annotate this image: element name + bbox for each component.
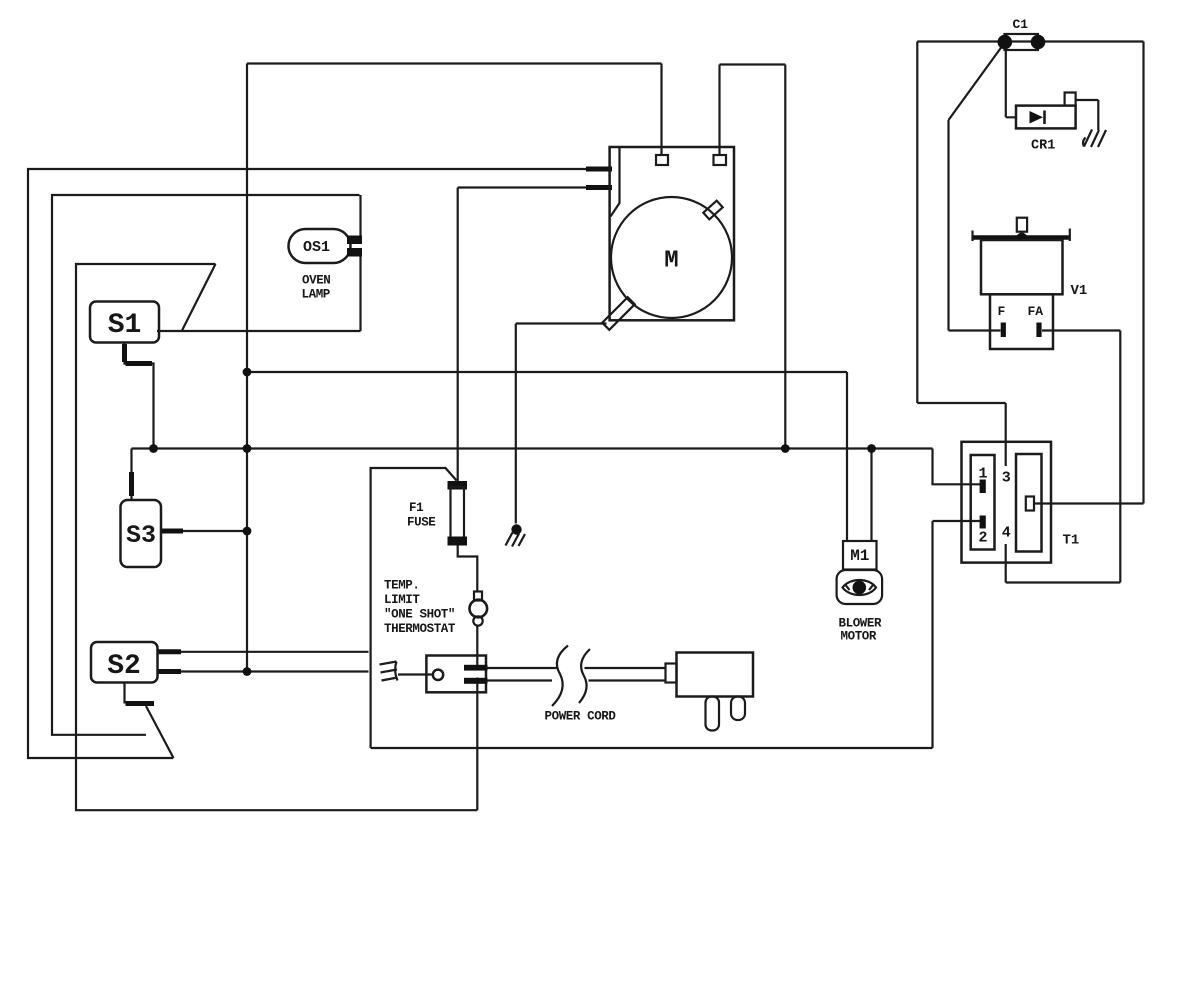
svg-text:M1: M1 [850, 547, 869, 565]
wire power cord conductor 1 [488, 667, 666, 669]
junction BU mid / central vertical [243, 368, 252, 377]
wire S3 right (BU) to central vertical [161, 530, 247, 532]
wire secondary terminal to right vertical [1034, 502, 1144, 504]
svg-text:POWER CORD: POWER CORD [545, 710, 617, 724]
wire PK net: top run to motor terminal 2 and down right side [720, 65, 786, 449]
ground symbol for CR1 [1083, 130, 1106, 148]
wire RD# bottom run [371, 747, 933, 749]
wire claw to receptacle circle [398, 673, 432, 675]
wire lamp branch vertical upper and lower [359, 195, 361, 331]
svg-text:OVEN: OVEN [302, 274, 330, 288]
svg-text:BLOWER: BLOWER [839, 617, 883, 631]
svg-text:"ONE SHOT": "ONE SHOT" [384, 608, 455, 622]
lamp OS1 oven lamp [289, 229, 363, 263]
svg-text:MOTOR: MOTOR [841, 630, 877, 644]
wire S2 switch lever [146, 706, 174, 758]
svg-text:T1: T1 [1063, 533, 1080, 549]
wire left vertical of HV loop (C1 left to pin3) [916, 42, 918, 404]
svg-text:OS1: OS1 [303, 239, 330, 256]
wire S1 switch lever [182, 264, 216, 331]
svg-text:S1: S1 [108, 310, 142, 341]
junction BU# / central vertical [243, 667, 252, 676]
svg-text:S3: S3 [126, 521, 156, 550]
transformer T1 [962, 442, 1052, 563]
junction PK# / central vertical [243, 444, 252, 453]
svg-text:M: M [664, 248, 678, 275]
junction PK motor lead / PK# [781, 444, 790, 453]
switch S3 (interlock monitor) [121, 500, 162, 567]
svg-text:V1: V1 [1071, 283, 1088, 299]
junction S3 BU wire / central vertical [243, 527, 252, 536]
thermostat temp limit one-shot [470, 592, 488, 626]
wire YW# net: top run, outer-left vertical, bottom run to S2 lever [28, 169, 611, 758]
wire T1 pin3 vertical [1005, 403, 1007, 466]
switch S2 (secondary interlock) [91, 642, 158, 683]
svg-text:3: 3 [1002, 470, 1011, 487]
svg-text:LAMP: LAMP [302, 288, 330, 302]
wire GR net from motor shaft stub to ground pin [516, 324, 607, 524]
switch S1 (primary interlock) [90, 302, 159, 343]
wire S1 bottom to PK# [125, 342, 154, 449]
wire T1 pin4 vertical [1005, 544, 1007, 583]
wire power cord conductor 2 [488, 679, 666, 681]
wire BK# thick end at motor tab [586, 185, 612, 190]
diode CR1 [1016, 93, 1076, 129]
wire WT# net: top run to S1 lever, inner-left vertical, long bottom run [76, 264, 477, 810]
svg-text:F1: F1 [409, 501, 423, 515]
capacitor C1 [998, 34, 1046, 50]
wire receptacle lower terminal down through RD# to WT# corner [476, 678, 478, 811]
wire fuse bottom to thermostat [458, 545, 478, 592]
power cord receptacle block [426, 656, 487, 693]
wire GY diagonal from C1 left [949, 47, 1002, 120]
wire T1 pin2 feed from RD# vertical [933, 521, 981, 748]
svg-text:FA: FA [1028, 304, 1044, 319]
svg-text:CR1: CR1 [1031, 139, 1055, 154]
junction PK#/S1 [149, 444, 158, 453]
wire enclosure left: fuse-top corner down to RD# run [371, 468, 457, 748]
wire S1 bottom thick stub [125, 344, 153, 364]
blower motor M1 [837, 541, 883, 604]
wire right vertical (C1 right down to secondary) [1142, 42, 1144, 504]
svg-text:F: F [998, 304, 1006, 319]
wire YW# thick end at motor tab [586, 167, 612, 172]
wire pin4 bottom run up to FA [1006, 331, 1121, 583]
ground pin symbol on GR wire [506, 524, 526, 546]
wire PK# main horizontal run [132, 447, 933, 449]
svg-text:LIMIT: LIMIT [384, 593, 420, 607]
wire GY vertical to F terminal [949, 120, 1001, 331]
wire T1 top horizontal to left vertical [917, 402, 1005, 404]
svg-text:1: 1 [979, 466, 988, 483]
svg-text:4: 4 [1002, 525, 1011, 542]
wire S1 right to lamp branch (WT triangle) [157, 330, 361, 332]
wire thermostat to receptacle upper terminal [476, 625, 478, 669]
wire FA terminal run to right [1042, 329, 1120, 331]
magnetron V1 [972, 218, 1071, 349]
junction blower right lead / PK# [867, 444, 876, 453]
wire S2 bottom stub and contact bar [123, 683, 125, 704]
wire BU net: top run from center vertical to motor terminal 1 [247, 64, 662, 157]
svg-text:FUSE: FUSE [407, 516, 435, 530]
svg-text:THERMOSTAT: THERMOSTAT [384, 622, 456, 636]
wire BU mid run from central vertical to blower motor left lead [247, 372, 847, 541]
svg-text:2: 2 [979, 530, 988, 547]
wire S2 top right (BK) run [157, 651, 369, 653]
wire CR1 to ground [1076, 100, 1099, 130]
wire C1 left terminal down to CR1 [1006, 50, 1016, 118]
motor M stirrer/turntable [602, 147, 734, 330]
wire central vertical (BU net) x=247 [246, 64, 248, 672]
wire BK# from fuse vertical to motor tab [458, 188, 611, 482]
wire top HV run under C1 [917, 40, 1143, 42]
fuse F1 [448, 481, 468, 546]
wire S3 top stub from PK# [130, 449, 132, 501]
svg-text:TEMP.: TEMP. [384, 579, 420, 593]
svg-text:C1: C1 [1013, 17, 1029, 32]
wire blower motor right lead [870, 449, 872, 542]
power cord break symbol [552, 646, 590, 707]
power cord plug [666, 653, 754, 731]
wire YW(triangle) net: top run to lamp, second-left vertical, bottom run to S2 contact [52, 195, 360, 735]
wire S2 lower right (BU#) run [157, 670, 369, 672]
ground claw at receptacle [380, 662, 398, 681]
svg-text:S2: S2 [107, 651, 141, 682]
wire T1 pin1 feed from PK# corner [933, 449, 981, 485]
